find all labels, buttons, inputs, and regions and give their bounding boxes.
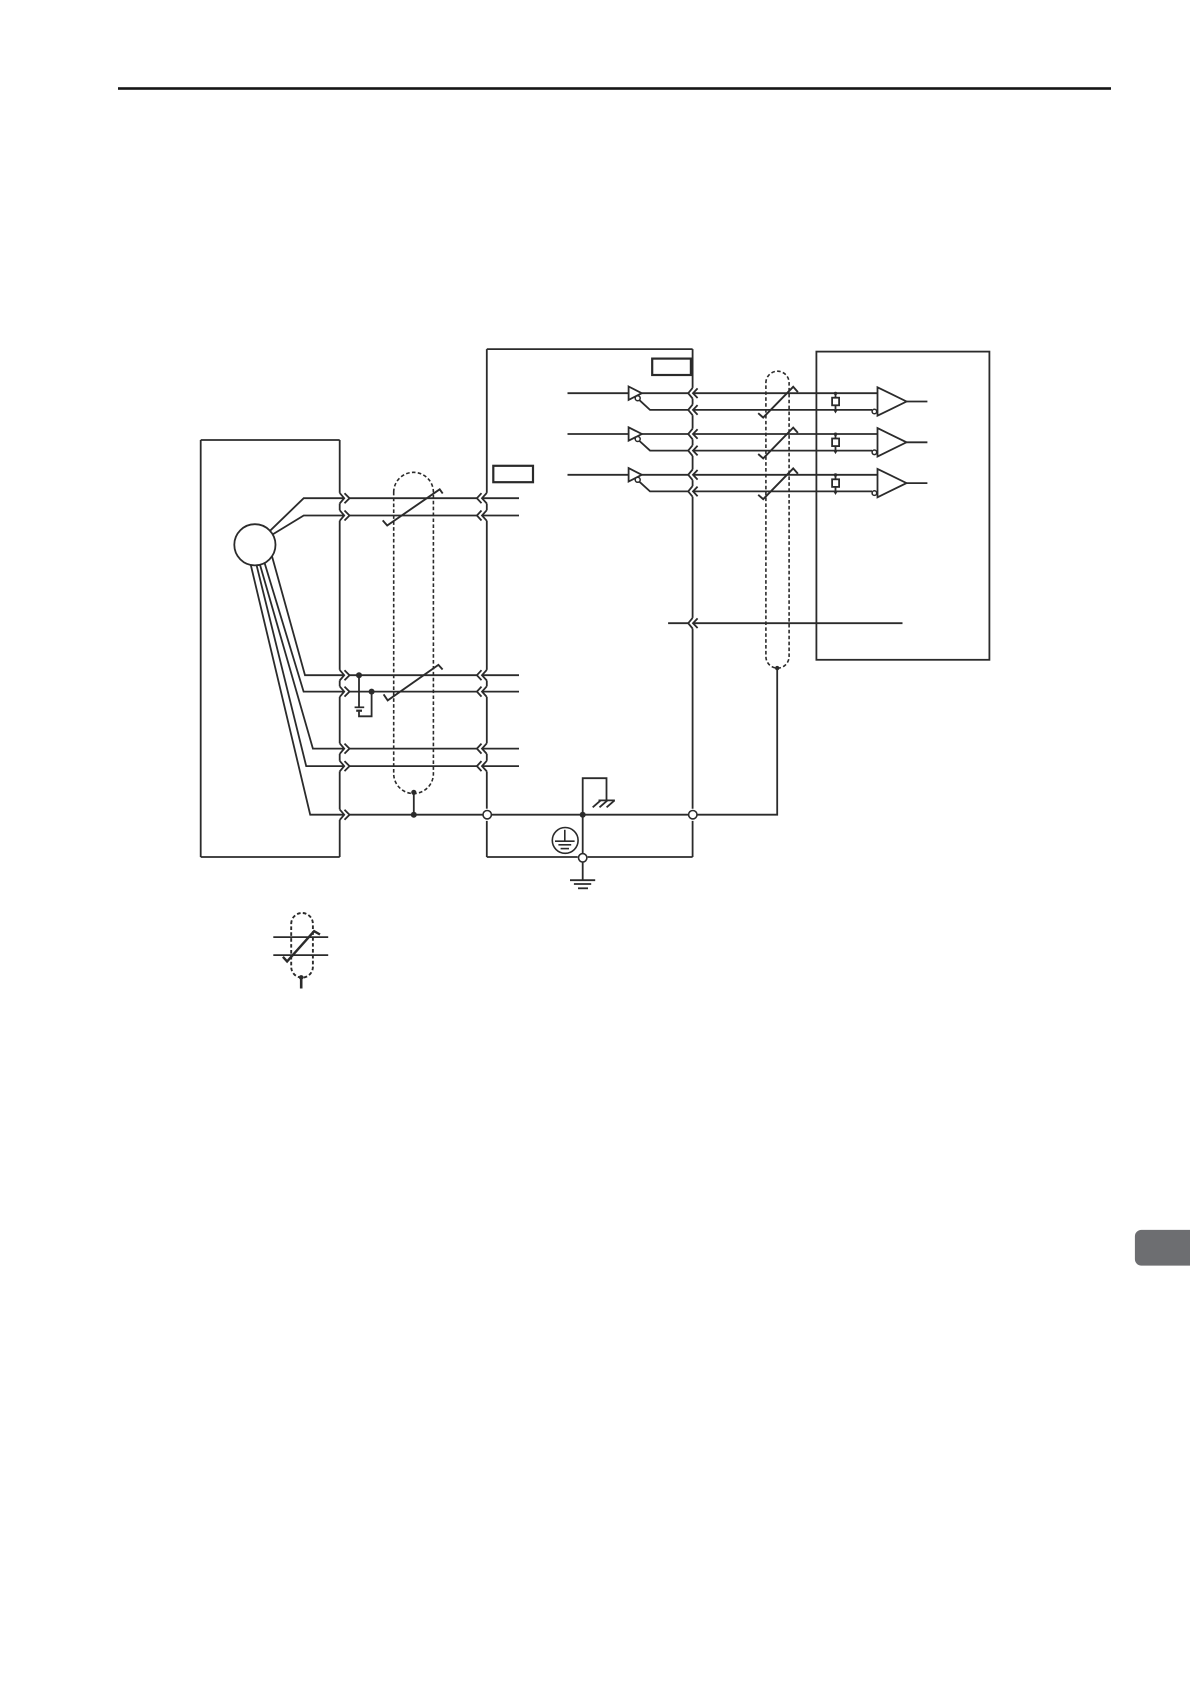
connector pin mark (motor side) <box>340 761 345 772</box>
connector pin marks PBO (CN1) <box>688 429 692 440</box>
wire PCO receiver output <box>907 482 928 484</box>
connector pin marks PCO (CN1) <box>688 470 692 481</box>
connector pin mark (CN2 side) <box>482 686 487 697</box>
servomotor box <box>201 440 340 857</box>
legend twisted-pair symbol <box>273 913 328 989</box>
terminating resistor R (channel PBO) <box>832 433 839 454</box>
terminating resistor R (channel PCO) <box>832 473 839 494</box>
shield drain junction on shield wire <box>411 812 417 818</box>
SERVOPACK box <box>487 349 693 857</box>
wire PCO (+) to controller <box>642 474 688 476</box>
host controller box <box>816 352 989 660</box>
wire sensor-ON signal from controller <box>668 622 688 624</box>
wire encoder wire /PS <box>273 516 519 535</box>
wire PBO internal <box>568 433 629 435</box>
ground terminal on servopack <box>582 815 584 854</box>
wire shield link inside servopack <box>491 814 688 816</box>
protective earth symbol <box>552 828 578 854</box>
controller cable shield junction <box>775 666 779 670</box>
chapter thumb tab <box>1135 1230 1190 1266</box>
wire encoder wire BAT+ <box>260 565 519 749</box>
wire to earth ground <box>582 862 584 880</box>
shield drain junction <box>411 790 416 795</box>
wire to frame ground <box>583 778 607 815</box>
connector pin mark (CN2 side) <box>482 493 487 504</box>
frame ground (chassis) <box>593 800 615 807</box>
output driver U3 (PCO) <box>629 468 642 482</box>
wire PBO receiver output <box>907 441 928 443</box>
arrowhead sensor-ON (CN1) <box>688 618 692 629</box>
earth ground <box>570 880 595 888</box>
output driver U1 (PAO) <box>629 387 642 401</box>
controller cable shield outline <box>766 371 789 668</box>
connector CN2 label box <box>493 466 533 482</box>
connector pin mark (motor side) <box>340 809 345 820</box>
output driver U2 (PBO) <box>629 427 642 441</box>
wire PAO (-) to controller <box>640 400 689 410</box>
line receiver U5 (channel PBO) <box>872 428 906 456</box>
line receiver U6 (channel PCO) <box>872 469 906 497</box>
wire PAO (+) to controller <box>642 392 688 394</box>
connector pin mark (motor side) <box>340 743 345 754</box>
motor M <box>234 524 275 565</box>
connector pin mark (motor side) <box>340 510 345 521</box>
connector pin mark (motor side) <box>340 686 345 697</box>
connector pin mark (CN2 side) <box>482 743 487 754</box>
wire PAO receiver output <box>907 401 928 403</box>
connector pin mark (CN2 side) <box>482 510 487 521</box>
connector shell terminal (CN1) <box>689 811 697 819</box>
terminating resistor R (channel PAO) <box>832 392 839 413</box>
encoder cable shield outline <box>394 472 434 793</box>
twisted-pair mark (PG power pair) <box>384 665 443 701</box>
wire encoder wire PS <box>270 498 519 531</box>
wire encoder wire BAT- <box>257 565 519 766</box>
frame ground tap junction <box>580 812 586 818</box>
twisted-pair mark (channel PBO) <box>758 428 798 459</box>
wire shield to controller cable <box>697 668 777 815</box>
line receiver U4 (channel PAO) <box>872 387 906 415</box>
wire encoder cable shield <box>251 565 483 815</box>
wire encoder wire PG0V <box>265 563 519 692</box>
connector pin mark (motor side) <box>340 670 345 681</box>
junction on PG5V wire <box>356 672 362 678</box>
wire PCO internal <box>568 474 629 476</box>
wire PBO (+) to controller <box>642 433 688 435</box>
connector pin mark (motor side) <box>340 493 345 504</box>
battery BAT <box>355 675 372 716</box>
wire PCO (-) to controller <box>640 482 689 492</box>
twisted-pair mark (PS pair) <box>383 489 443 525</box>
wire PAO internal <box>568 392 629 394</box>
twisted-pair mark (channel PCO) <box>758 468 798 499</box>
wire PBO (-) to controller <box>640 441 689 451</box>
junction on PG0V wire <box>369 689 375 695</box>
page header rule <box>118 87 1111 90</box>
connector pin marks PAO (CN1) <box>688 388 692 399</box>
wire encoder wire PG5V <box>272 556 519 675</box>
connector CN1 label box <box>652 359 691 375</box>
connector pin mark (CN2 side) <box>482 761 487 772</box>
twisted-pair mark (channel PAO) <box>758 387 798 418</box>
connector pin mark (CN2 side) <box>482 670 487 681</box>
connector shell terminal (CN2) <box>483 811 491 819</box>
